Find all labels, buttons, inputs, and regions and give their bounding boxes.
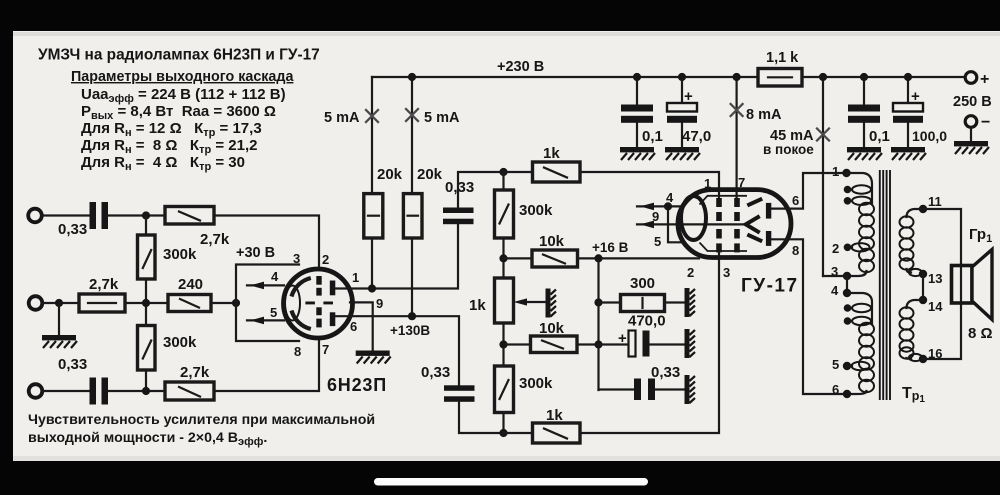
trafo secondary winding upper exit bbox=[907, 269, 912, 273]
input terminal 2 bbox=[29, 296, 43, 310]
ground pin9 bbox=[356, 351, 391, 364]
trafo secondary terminal 16 bbox=[919, 355, 927, 363]
trafo secondary terminal 14 bbox=[919, 296, 927, 304]
capacitor 47,0 stem bbox=[681, 77, 683, 148]
trafo primary tap loop d bbox=[848, 320, 853, 322]
resistor 20k right bbox=[403, 194, 422, 238]
svg-text:5: 5 bbox=[270, 305, 277, 320]
resistor 10k row1 bbox=[532, 250, 578, 267]
wire secondary 11 to speaker bbox=[923, 209, 961, 359]
trafo primary terminal 6 bbox=[843, 390, 851, 398]
svg-text:5 mA: 5 mA bbox=[324, 110, 360, 126]
resistor 300 cathode bbox=[621, 295, 665, 312]
svg-text:4: 4 bbox=[831, 283, 839, 298]
svg-text:8: 8 bbox=[792, 243, 799, 258]
svg-text:3: 3 bbox=[293, 251, 300, 266]
svg-text:2: 2 bbox=[832, 241, 839, 256]
resistor 2,7k row2 bbox=[79, 294, 125, 312]
svg-text:5: 5 bbox=[832, 357, 839, 372]
svg-text:0,1: 0,1 bbox=[869, 128, 890, 145]
svg-text:УМЗЧ на радиолампах 6Н23П и ГУ: УМЗЧ на радиолампах 6Н23П и ГУ-17 bbox=[38, 47, 320, 64]
junction grid node bbox=[232, 299, 240, 307]
tube GU17 envelope bbox=[678, 190, 791, 258]
terminal +250V bbox=[965, 72, 977, 84]
svg-text:0,33: 0,33 bbox=[445, 179, 474, 196]
wire 300 row bbox=[599, 301, 686, 303]
wire cathode bus GU17 bbox=[599, 258, 700, 390]
svg-text:2,7k: 2,7k bbox=[180, 364, 210, 381]
wire input3 to cap bbox=[42, 390, 90, 392]
trafo primary terminal 5 bbox=[847, 365, 852, 367]
wire coupling bottom to ladder bbox=[459, 402, 504, 433]
chassis ground 470 row bbox=[685, 329, 696, 358]
chassis ground 300 row bbox=[685, 288, 696, 317]
junction anode1 20k bbox=[368, 284, 376, 292]
trafo secondary terminal 11 bbox=[919, 205, 927, 213]
wire shield pin9 to ground bbox=[350, 302, 373, 351]
wire 1k top to GU17 pin1 bbox=[504, 172, 720, 199]
input terminal 3 bbox=[29, 384, 43, 398]
junction anode2 20k bbox=[408, 312, 416, 320]
wire 470 row bbox=[599, 343, 686, 345]
chassis ground pot wiper bbox=[546, 289, 557, 318]
+230V rail right segment bbox=[802, 76, 965, 78]
svg-text:300k: 300k bbox=[163, 246, 197, 263]
resistor 1k top bbox=[533, 162, 581, 182]
svg-text:250 В: 250 В bbox=[953, 94, 992, 110]
inner contour GU17 bbox=[700, 196, 748, 251]
anode bar lower GU17 bbox=[766, 231, 771, 246]
svg-text:8 mA: 8 mA bbox=[746, 107, 782, 123]
capacitor 100,0 stem bbox=[907, 77, 909, 148]
junction ladder 10k row1 bbox=[499, 254, 507, 262]
junction input2 ground bbox=[55, 299, 63, 307]
wire left 20k to anode row bbox=[371, 238, 373, 289]
wire input2 bbox=[42, 302, 79, 304]
svg-text:1: 1 bbox=[352, 270, 359, 285]
heater arrow pin4 GU17 bbox=[637, 205, 681, 207]
svg-text:3: 3 bbox=[723, 265, 730, 280]
anode bar lower 6N23P bbox=[330, 312, 336, 326]
cathode arc lower 6N23P bbox=[292, 311, 311, 330]
wire anode2 row bbox=[335, 316, 459, 385]
trafo primary terminal 3 bbox=[843, 272, 851, 280]
svg-text:+16 В: +16 В bbox=[592, 240, 629, 255]
trafo secondary winding lower exit bbox=[907, 357, 912, 360]
potentiometer wiper arrow bbox=[524, 301, 546, 303]
wire center tap bbox=[823, 275, 847, 277]
svg-text:470,0: 470,0 bbox=[628, 313, 666, 330]
svg-text:6: 6 bbox=[792, 193, 799, 208]
wire row1 to grid pin2 bbox=[214, 216, 319, 277]
svg-text:10k: 10k bbox=[539, 233, 565, 250]
wire row2 mid bbox=[125, 302, 168, 304]
current cross 45mA bbox=[816, 128, 830, 142]
trafo secondary winding lower entry bbox=[907, 300, 924, 308]
trafo primary tap loop b bbox=[848, 200, 853, 202]
heater arrow pin4 6N23P bbox=[247, 284, 284, 286]
svg-text:2: 2 bbox=[687, 265, 694, 280]
capacitor 100,0 plates bbox=[893, 103, 923, 112]
junction screen feed bbox=[733, 73, 741, 81]
heater arrow pin5 6N23P bbox=[247, 319, 284, 321]
junction row1 divider bbox=[142, 211, 150, 219]
wire ladder seg2 bbox=[502, 323, 504, 366]
trafo primary tap loop a bbox=[848, 188, 853, 190]
svg-text:9: 9 bbox=[376, 296, 383, 311]
svg-text:+: + bbox=[618, 330, 627, 347]
input terminal 1 bbox=[28, 209, 42, 223]
grid dashes GU17 column2 bbox=[734, 198, 740, 252]
svg-text:+130В: +130В bbox=[390, 323, 430, 338]
svg-text:0,33: 0,33 bbox=[58, 221, 87, 238]
trafo secondary series link bbox=[922, 274, 924, 300]
chassis ground 0,33 row bbox=[685, 375, 696, 404]
wire minus terminal to ground bbox=[970, 128, 972, 143]
wire coupling top to ladder bbox=[458, 172, 504, 208]
ground under 100,0 bbox=[891, 147, 926, 160]
junction 45mA feed bbox=[819, 73, 827, 81]
capacitor 470,0 plates bbox=[629, 331, 636, 357]
svg-text:240: 240 bbox=[178, 276, 203, 293]
wire 240 to grid node bbox=[211, 302, 236, 304]
wire right 20k to anode row bbox=[411, 238, 413, 316]
capacitor 0,33 coupling bottom bbox=[444, 385, 475, 391]
svg-text:1k: 1k bbox=[469, 297, 486, 314]
terminal minus bbox=[965, 116, 977, 128]
potentiometer 1k bbox=[495, 278, 514, 323]
current cross 5mA right bbox=[405, 108, 419, 122]
svg-text:10k: 10k bbox=[539, 320, 565, 337]
trafo primary terminal 2 bbox=[848, 246, 853, 248]
junction right 20k feed bbox=[408, 73, 416, 81]
resistor 1,1k bbox=[758, 69, 802, 87]
svg-text:8 Ω: 8 Ω bbox=[968, 325, 993, 342]
trafo secondary winding upper entry bbox=[907, 209, 924, 217]
current cross 5mA left bbox=[365, 109, 379, 123]
svg-text:0,33: 0,33 bbox=[651, 364, 680, 381]
resistor 20k left bbox=[364, 194, 383, 238]
anode bar upper 6N23P bbox=[330, 281, 336, 296]
resistor 2,7k row3 bbox=[165, 382, 214, 400]
trafo primary winding lower entry bbox=[847, 293, 872, 324]
svg-text:выходной мощности - 2×0,4 Вэфф: выходной мощности - 2×0,4 Вэфф. bbox=[28, 430, 267, 448]
wire right 20k feed bbox=[411, 77, 413, 194]
svg-text:+230 В: +230 В bbox=[497, 59, 544, 75]
capacitor 0,33 cathode plates bbox=[634, 379, 641, 401]
beam line pin9 GU17 bbox=[637, 223, 746, 225]
grid dashes GU17 column1 bbox=[716, 198, 722, 252]
wire ladder seg1 bbox=[502, 172, 504, 278]
resistor 10k row2 bbox=[531, 336, 578, 353]
trafo primary terminal 4 bbox=[843, 289, 851, 297]
resistor 1k bottom bbox=[533, 423, 581, 443]
trafo primary winding upper loops bbox=[859, 203, 874, 272]
resistor 300k lower bbox=[138, 326, 156, 371]
wire row3 to grid pin7 bbox=[214, 328, 319, 392]
wire input2 ground stem bbox=[58, 303, 60, 336]
svg-text:Для Rн = 4 Ω Ктр = 30: Для Rн = 4 Ω Ктр = 30 bbox=[81, 154, 245, 173]
+230V rail left segment bbox=[372, 76, 758, 78]
svg-text:1,1 k: 1,1 k bbox=[766, 50, 799, 66]
ground under 0,1 left bbox=[620, 147, 655, 160]
svg-text:13: 13 bbox=[928, 271, 942, 286]
junction ladder bottom bbox=[499, 429, 507, 437]
junction cathode 470 row bbox=[594, 340, 602, 348]
wire left 20k feed bbox=[371, 77, 373, 194]
trafo secondary terminal 13 bbox=[919, 270, 927, 278]
svg-text:300k: 300k bbox=[163, 334, 197, 351]
wire heater bracket GU17 bbox=[668, 206, 681, 242]
trafo primary tap loop c bbox=[848, 307, 853, 309]
svg-text:5: 5 bbox=[654, 234, 661, 249]
svg-text:47,0: 47,0 bbox=[682, 128, 711, 145]
capacitor 0,1 left stem bbox=[636, 77, 638, 148]
wire heater bracket 6N23P bbox=[236, 265, 299, 342]
capacitor 47,0 plates bbox=[667, 103, 697, 112]
junction 0,1 right bbox=[860, 73, 868, 81]
trafo primary winding lower exit bbox=[847, 391, 867, 394]
resistor 2,7k row1 bbox=[165, 207, 214, 225]
wire anode pin8 to trafo terminal6 bbox=[771, 239, 843, 394]
heater ellipse 6N23P bbox=[285, 286, 300, 321]
svg-text:ГУ-17: ГУ-17 bbox=[741, 276, 799, 297]
svg-text:в покое: в покое bbox=[763, 142, 814, 157]
junction ladder top bbox=[499, 168, 507, 176]
junction cathode bus top bbox=[594, 254, 602, 262]
ground under 47,0 bbox=[665, 147, 700, 160]
ground under 0,1 right bbox=[847, 147, 882, 160]
wire 10k row2 bbox=[504, 343, 599, 345]
svg-text:9: 9 bbox=[652, 209, 659, 224]
ground input2 bbox=[42, 335, 77, 348]
svg-text:+: + bbox=[911, 88, 920, 105]
trafo primary winding upper entry bbox=[847, 173, 873, 203]
svg-text:3: 3 bbox=[831, 264, 838, 279]
anode bar upper GU17 bbox=[766, 203, 771, 219]
ground under minus terminal bbox=[954, 141, 989, 154]
svg-text:0,33: 0,33 bbox=[58, 356, 87, 373]
svg-text:+30 В: +30 В bbox=[236, 245, 275, 261]
svg-text:20k: 20k bbox=[377, 166, 403, 183]
wire cap1 to resistor bbox=[108, 214, 165, 216]
svg-text:7: 7 bbox=[738, 175, 745, 190]
junction row3 divider bbox=[142, 387, 150, 395]
wire 10k row1 bbox=[504, 257, 599, 259]
svg-text:0,33: 0,33 bbox=[421, 364, 450, 381]
capacitor 0,1 right plates bbox=[848, 105, 880, 112]
wire 0,33 cathode row bbox=[599, 388, 686, 390]
svg-text:300k: 300k bbox=[519, 202, 553, 219]
trafo primary winding upper exit bbox=[847, 271, 867, 276]
svg-text:300k: 300k bbox=[519, 375, 553, 392]
wire ladder seg3 bbox=[502, 413, 504, 434]
junction 100,0 bbox=[904, 73, 912, 81]
svg-text:Чувствительность усилителя при: Чувствительность усилителя при максималь… bbox=[28, 412, 375, 428]
svg-text:11: 11 bbox=[928, 194, 942, 209]
svg-text:5 mA: 5 mA bbox=[424, 110, 460, 126]
svg-text:1: 1 bbox=[704, 176, 711, 191]
speaker Gr1 body bbox=[952, 266, 973, 304]
svg-text:20k: 20k bbox=[417, 166, 443, 183]
junction row2 divider bbox=[142, 299, 150, 307]
capacitor 0,1 right stem bbox=[863, 77, 865, 148]
wire anode pin6 to trafo terminal1 bbox=[771, 173, 843, 209]
svg-text:1: 1 bbox=[832, 164, 839, 179]
svg-text:1k: 1k bbox=[546, 407, 563, 424]
junction 0,1 left bbox=[633, 73, 641, 81]
wire screen feed pin7 bbox=[735, 77, 737, 199]
capacitor 0,1 left plates bbox=[621, 105, 653, 112]
svg-text:2: 2 bbox=[322, 252, 329, 267]
resistor 240 bbox=[168, 295, 211, 312]
svg-text:14: 14 bbox=[928, 299, 943, 314]
svg-text:+: + bbox=[684, 88, 693, 105]
resistor 300k ladder upper bbox=[495, 190, 514, 238]
svg-text:6Н23П: 6Н23П bbox=[327, 375, 387, 395]
trafo primary terminal 1 bbox=[842, 169, 850, 177]
grid dashes 6N23P bbox=[316, 276, 321, 327]
wire anode1 row bbox=[335, 225, 458, 289]
trafo center tap link bbox=[846, 276, 848, 293]
svg-text:6: 6 bbox=[832, 382, 839, 397]
svg-text:7: 7 bbox=[322, 342, 329, 357]
trafo core bbox=[880, 170, 890, 400]
anode angled plate upper GU17 bbox=[747, 199, 762, 206]
capacitor 0,33 input1 bbox=[90, 202, 97, 229]
cathode arc upper 6N23P bbox=[292, 278, 311, 297]
wire cap3 to resistor bbox=[108, 390, 165, 392]
wire divider vertical bbox=[145, 216, 147, 392]
beam plates chevron GU17 bbox=[746, 216, 760, 233]
tube 6N23P envelope bbox=[284, 269, 353, 338]
current cross 8mA bbox=[730, 103, 744, 117]
wire 1k bottom to GU17 pin3 bbox=[504, 251, 720, 433]
cathode ellipse GU17 bbox=[681, 196, 706, 240]
junction ladder 10k row2 bbox=[499, 340, 507, 348]
trafo primary winding lower loops bbox=[859, 323, 874, 392]
svg-text:−: − bbox=[981, 114, 990, 131]
svg-text:1k: 1k bbox=[543, 145, 560, 162]
svg-text:Параметры выходного каскада: Параметры выходного каскада bbox=[71, 69, 294, 85]
shield dashes 6N23P bbox=[305, 302, 333, 305]
svg-text:8: 8 bbox=[294, 344, 301, 359]
speaker Gr1 horn bbox=[972, 250, 992, 320]
svg-text:300: 300 bbox=[630, 275, 655, 292]
svg-text:4: 4 bbox=[271, 269, 279, 284]
svg-text:6: 6 bbox=[350, 319, 357, 334]
svg-text:100,0: 100,0 bbox=[912, 128, 947, 144]
svg-text:2,7k: 2,7k bbox=[200, 231, 230, 248]
junction 47,0 bbox=[678, 73, 686, 81]
resistor 300k upper bbox=[138, 235, 156, 279]
trafo secondary winding lower loops bbox=[900, 307, 914, 358]
capacitor 0,33 coupling top bbox=[443, 208, 474, 214]
capacitor 0,33 input3 bbox=[90, 378, 97, 405]
trafo secondary winding upper loops bbox=[900, 216, 914, 269]
wire input1 to cap bbox=[42, 214, 91, 216]
wire 45mA center-tap feed bbox=[822, 77, 824, 276]
svg-text:+: + bbox=[980, 71, 989, 88]
svg-text:0,1: 0,1 bbox=[642, 128, 663, 145]
junction heater bracket bbox=[664, 202, 672, 210]
resistor 300k ladder lower bbox=[495, 366, 514, 413]
junction cathode 300 row bbox=[594, 298, 602, 306]
anode angled plate lower GU17 bbox=[747, 235, 762, 242]
svg-text:2,7k: 2,7k bbox=[89, 276, 119, 293]
